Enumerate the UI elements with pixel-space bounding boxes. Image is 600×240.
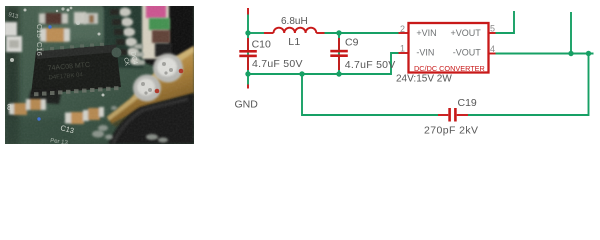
svg-text:DC/DC CONVERTER: DC/DC CONVERTER <box>414 64 485 73</box>
svg-text:GND: GND <box>235 98 259 110</box>
svg-text:C19: C19 <box>458 97 477 109</box>
svg-text:2: 2 <box>400 24 405 34</box>
svg-text:1: 1 <box>400 43 405 53</box>
svg-text:C10: C10 <box>252 38 271 50</box>
svg-text:+VOUT: +VOUT <box>451 28 482 38</box>
svg-text:4.7uF 50V: 4.7uF 50V <box>345 59 396 71</box>
svg-text:4: 4 <box>490 44 495 54</box>
svg-text:-VIN: -VIN <box>416 48 434 58</box>
svg-text:6.8uH: 6.8uH <box>281 16 308 27</box>
svg-text:24V:15V 2W: 24V:15V 2W <box>396 74 452 85</box>
svg-text:L1: L1 <box>288 36 300 48</box>
svg-text:-VOUT: -VOUT <box>453 48 482 58</box>
svg-text:C9: C9 <box>345 36 359 48</box>
svg-text:270pF 2kV: 270pF 2kV <box>424 125 478 137</box>
svg-text:+VIN: +VIN <box>416 28 436 38</box>
svg-text:4.7uF 50V: 4.7uF 50V <box>252 58 303 70</box>
svg-text:5: 5 <box>490 24 495 34</box>
